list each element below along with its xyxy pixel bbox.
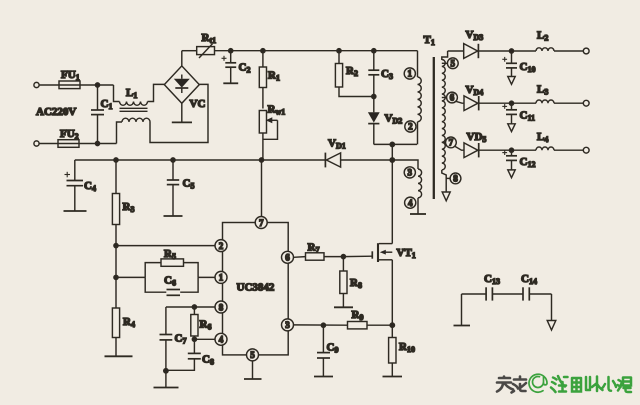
resistor R2: [335, 51, 373, 97]
node junction: [390, 158, 394, 162]
fuse FU2: [58, 128, 79, 147]
pin 3: [282, 319, 294, 331]
watermark 头条 @绿色比心情: [497, 374, 631, 392]
node junction: [390, 142, 394, 146]
node junction: [509, 101, 513, 105]
pin 5: [442, 58, 458, 69]
svg-text:7: 7: [259, 218, 264, 228]
thermistor Rt1: [182, 32, 216, 58]
capacitor C14: [521, 273, 552, 301]
svg-text:8: 8: [453, 174, 458, 184]
svg-text:8: 8: [219, 302, 224, 312]
capacitor C10 (electrolytic): [502, 51, 535, 84]
capacitor C8: [166, 339, 214, 370]
pin 5: [247, 349, 259, 361]
op-amp U1 UC3842 body: [223, 223, 289, 355]
svg-text:5: 5: [451, 58, 456, 68]
node junction: [259, 158, 263, 162]
wire: [115, 246, 117, 278]
capacitor C1: [91, 85, 112, 144]
wire: [479, 149, 536, 151]
inductor L2: [536, 30, 554, 52]
node junction: [192, 305, 196, 309]
wire: [39, 143, 58, 145]
transformer T1 core: [433, 57, 435, 199]
wire: [39, 84, 59, 86]
node junction: [372, 49, 376, 53]
capacitor C3: [368, 51, 393, 97]
node junction: [372, 94, 376, 98]
wire mid rail: [75, 159, 393, 161]
transistor VT1 (MOSFET): [372, 243, 415, 262]
pin 7: [255, 217, 267, 229]
svg-text:1: 1: [408, 69, 413, 79]
diode VD1: [325, 138, 345, 168]
pin 4: [405, 197, 416, 208]
node junction: [171, 158, 175, 162]
wire drain column: [391, 144, 393, 243]
bridge rectifier VC: [164, 66, 205, 110]
svg-text:2: 2: [219, 241, 224, 251]
node junction: [114, 244, 118, 248]
node junction: [261, 49, 265, 53]
ground: [154, 371, 179, 388]
wire: [181, 51, 183, 66]
pin 4: [215, 333, 227, 345]
resistor R5 with capacitor C6 network: [145, 248, 198, 277]
capacitor C9: [314, 325, 338, 376]
resistor R8: [340, 257, 362, 307]
wire pin4: [194, 338, 215, 340]
wire pin3: [294, 324, 348, 326]
potentiometer Rw1: [259, 104, 285, 161]
resistor R1: [259, 51, 280, 109]
ground: [410, 213, 426, 215]
svg-text:3: 3: [408, 168, 413, 178]
resistor R9: [348, 309, 393, 329]
ground left: [454, 294, 471, 326]
wire: [448, 50, 464, 52]
node junction: [95, 83, 99, 87]
wire: [554, 149, 583, 151]
node junction: [114, 158, 118, 162]
T1 secondary winding (pins 5-8): [442, 51, 448, 192]
diode VD3: [464, 29, 484, 58]
capacitor C4 (electrolytic): [64, 160, 96, 211]
T1 aux winding (pins 3-4): [392, 160, 421, 214]
svg-text:4: 4: [408, 198, 413, 208]
wire pin8: [166, 306, 215, 308]
diode VD4: [464, 84, 483, 111]
wire: [479, 102, 536, 104]
wire top rail: [215, 50, 418, 52]
output terminal 1: [583, 48, 589, 54]
capacitor C12 (electrolytic): [502, 150, 535, 178]
pin 1: [404, 68, 415, 79]
ground: [383, 376, 403, 378]
wire pin2: [116, 245, 215, 247]
capacitor C7: [160, 307, 187, 371]
node junction: [114, 275, 118, 279]
wire pin1: [116, 276, 215, 278]
inductor L1 (common-mode choke): [114, 84, 209, 143]
node junction: [95, 141, 99, 145]
svg-text:AC220V: AC220V: [36, 106, 76, 118]
ground: [105, 355, 133, 357]
capacitor C11 (electrolytic): [502, 103, 535, 131]
wire source column: [391, 260, 393, 325]
node junction: [229, 49, 233, 53]
svg-text:6: 6: [285, 253, 290, 263]
fuse FU1: [59, 69, 80, 89]
svg-text:VC: VC: [190, 98, 206, 110]
wire pin6: [294, 256, 306, 259]
resistor R6: [191, 307, 212, 339]
svg-text:UC3842: UC3842: [237, 282, 275, 294]
ground right (open arrow): [547, 294, 556, 330]
wire: [492, 293, 522, 295]
resistor R4: [112, 277, 135, 355]
input terminal top: [34, 82, 39, 87]
ground (open arrow): [442, 192, 450, 201]
wire pin7 to rail: [261, 160, 263, 217]
node junction: [192, 337, 196, 341]
pin 2: [405, 121, 416, 132]
pin 2: [215, 240, 227, 252]
ground: [334, 306, 353, 308]
node junction: [390, 323, 394, 327]
output terminal 3: [583, 147, 589, 153]
T1 primary winding (pins 1-2): [418, 51, 422, 145]
wire: [554, 50, 583, 52]
pin 6: [282, 251, 294, 263]
svg-text:4: 4: [219, 335, 224, 345]
diode VD5: [464, 131, 486, 158]
node junction: [509, 49, 513, 53]
svg-text:5: 5: [250, 350, 255, 360]
wire: [79, 143, 117, 145]
capacitor C2 (electrolytic): [222, 51, 251, 84]
svg-text:6: 6: [450, 93, 455, 103]
node junction: [321, 323, 325, 327]
inductor L3: [536, 84, 554, 104]
inductor L4: [536, 131, 554, 150]
capacitor C6: [145, 275, 198, 296]
input terminal bottom: [34, 141, 39, 146]
pin 1: [215, 271, 227, 283]
wire: [554, 102, 583, 104]
output terminal 2: [583, 100, 589, 106]
pin 3: [404, 167, 415, 178]
capacitor C13: [462, 273, 500, 301]
node junction: [337, 49, 341, 53]
wire: [343, 255, 372, 257]
pin 7: [442, 137, 464, 150]
svg-text:3: 3: [285, 320, 290, 330]
pin 8: [215, 301, 227, 313]
resistor R3: [112, 160, 134, 246]
svg-text:7: 7: [449, 138, 454, 148]
wire: [374, 143, 417, 145]
ground below pin 5: [244, 361, 262, 379]
ground: [172, 103, 192, 122]
wire: [80, 84, 114, 86]
node junction: [164, 369, 168, 373]
node junction: [341, 255, 345, 259]
pin 6: [442, 92, 464, 103]
node junction: [509, 148, 513, 152]
wire: [478, 50, 536, 52]
capacitor C5: [164, 160, 195, 216]
svg-text:1: 1: [219, 273, 224, 283]
svg-text:2: 2: [408, 122, 413, 132]
resistor R7: [306, 242, 344, 261]
diode VD2: [368, 97, 402, 145]
resistor R10: [389, 325, 415, 376]
pin 8: [446, 173, 461, 184]
